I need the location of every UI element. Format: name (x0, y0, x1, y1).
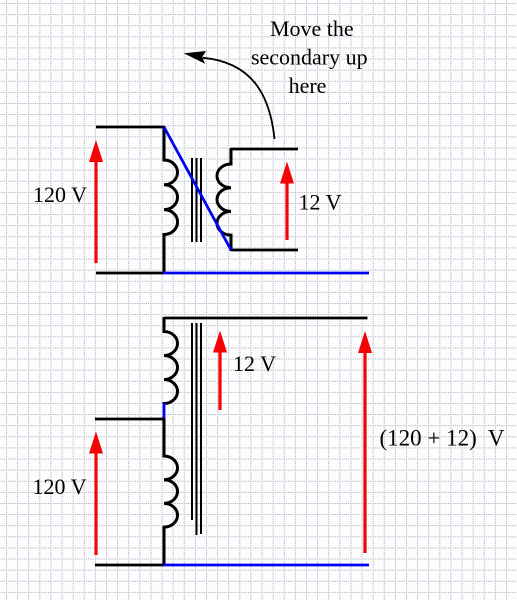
svg-text:12 V: 12 V (233, 351, 276, 376)
svg-text:120 V: 120 V (33, 474, 87, 499)
voltage arrow: 12 V (bottom circuit) (213, 331, 227, 411)
wire: top transformer primary top lead (96, 126, 164, 129)
wire: top circuit bottom rail (blue part) (163, 272, 369, 275)
wire: secondary top lead (231, 148, 298, 151)
svg-text:here: here (289, 73, 327, 98)
autotransformer T2 secondary winding (12 V section) (164, 317, 178, 404)
wire: blue diagonal reconnection from primary top to secondary bottom (164, 127, 231, 250)
wire: bottom circuit bottom rail (black part) (95, 564, 164, 567)
svg-text:12 V: 12 V (299, 190, 342, 215)
autotransformer T2 core (192, 323, 201, 535)
autotransformer T2 primary winding (120 V section) (164, 418, 178, 566)
wire: top circuit bottom rail (black part) (96, 272, 164, 275)
svg-text:120 V: 120 V (33, 182, 87, 207)
curved annotation arrow (186, 52, 275, 139)
wire: bottom circuit bottom rail (blue part) (163, 564, 369, 567)
wire: blue segment joining windings at tap (163, 403, 166, 419)
transformer T1 core (192, 158, 201, 242)
svg-text:Move the: Move the (270, 16, 354, 41)
voltage arrow: 120 V (top circuit) (89, 140, 103, 263)
transformer T1 primary winding (120 V) (164, 126, 178, 274)
transformer T1 secondary winding (12 V) (217, 148, 231, 251)
voltage arrow: 12 V (top circuit) (280, 162, 294, 241)
svg-text:(120 + 12) V: (120 + 12) V (380, 426, 505, 451)
voltage arrow: (120 + 12) V output (358, 331, 372, 553)
svg-text:secondary up: secondary up (251, 45, 368, 70)
wire: bottom circuit top rail (164, 317, 368, 320)
wire: secondary bottom lead (231, 249, 298, 252)
voltage arrow: 120 V (bottom circuit) (89, 432, 103, 556)
wire: 120 V tap stub (95, 418, 164, 421)
annotation text "Move the secondary up here" (251, 16, 368, 98)
